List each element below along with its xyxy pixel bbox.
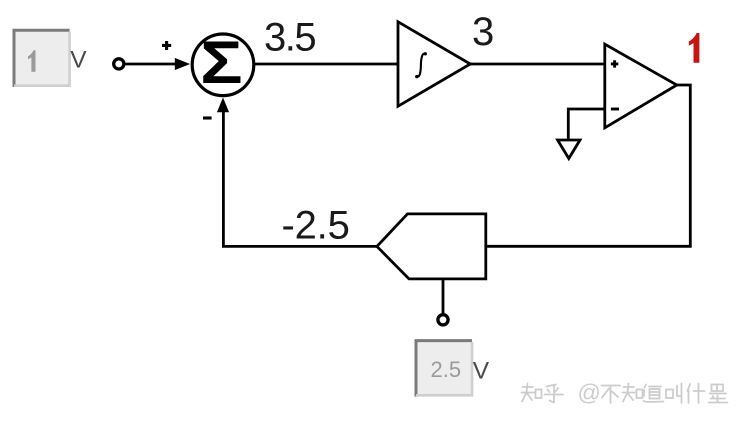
minus sign at summer feedback input — [203, 116, 212, 119]
svg-text:3.5: 3.5 — [264, 16, 315, 60]
arrowhead into summer — [175, 58, 190, 70]
input terminal node — [114, 59, 124, 69]
wire: summer to integrator — [255, 63, 398, 66]
svg-text:Σ: Σ — [200, 29, 242, 96]
svg-text:3: 3 — [472, 10, 494, 54]
control terminal node — [438, 315, 448, 325]
svg-text:-2.5: -2.5 — [282, 204, 350, 248]
plus sign at summer input — [162, 41, 171, 50]
gain block G1 (vcvs pentagon) — [377, 214, 486, 279]
char 叫 — [666, 390, 673, 399]
svg-text:V: V — [473, 357, 490, 384]
char 知 — [623, 384, 636, 402]
watermark 知乎 @不知道叫什墨 — [522, 380, 728, 406]
arrowhead into summer bottom — [217, 98, 229, 113]
char 乎 — [545, 385, 564, 403]
comparator U2 — [605, 44, 677, 128]
voltage input box V2 — [416, 341, 472, 397]
svg-text:@: @ — [578, 380, 601, 406]
char 道 — [644, 385, 664, 403]
wire: terminal to summer — [126, 63, 185, 66]
voltage input box V1 — [14, 30, 70, 87]
integrator A1 — [398, 22, 470, 106]
integral sign — [415, 52, 427, 78]
char 不 — [602, 386, 621, 404]
wire: gain block to feedback vertical — [223, 108, 377, 246]
wire: comparator output to feedback — [486, 85, 691, 246]
ground — [558, 140, 580, 159]
char 什 — [688, 384, 705, 404]
node label 1 (red output value) — [689, 33, 700, 63]
wire: integrator to comparator — [470, 63, 605, 66]
plus sign (U2 noninverting input) — [611, 60, 618, 67]
svg-text:2.5: 2.5 — [431, 357, 462, 382]
wire: inverting input to ground — [568, 109, 605, 140]
summing junction U1 — [192, 34, 254, 96]
svg-text:V: V — [70, 47, 87, 74]
wire: gain block control pin — [442, 279, 445, 314]
char 知 — [522, 384, 535, 402]
minus sign (U2 inverting input) — [611, 108, 619, 111]
char 墨 — [712, 385, 724, 392]
